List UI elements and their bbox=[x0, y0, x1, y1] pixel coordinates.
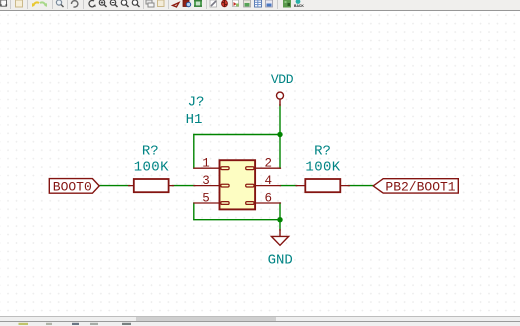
wire R1 to pin3 bbox=[172, 185, 195, 187]
icon: netlist bbox=[233, 0, 240, 7]
svg-text:PB2/BOOT1: PB2/BOOT1 bbox=[385, 180, 455, 195]
icon: run pcbnew bbox=[283, 0, 291, 8]
wire left vertical pin5 down bbox=[193, 203, 195, 220]
toolbar separators bbox=[11, 0, 278, 9]
svg-text:VDD: VDD bbox=[271, 72, 294, 87]
svg-text:R?: R? bbox=[314, 143, 331, 159]
wire bottom horizontal GND bus bbox=[194, 219, 280, 221]
resistor R2 body bbox=[305, 179, 340, 192]
wire BOOT0 to R1 bbox=[99, 185, 130, 187]
bottom status strip (cropped) bbox=[0, 321, 520, 326]
connector H1 pin notches bbox=[221, 167, 254, 205]
icon: backannotate BACK bbox=[294, 0, 304, 8]
svg-text:BOOT0: BOOT0 bbox=[53, 180, 92, 195]
power symbol GND bbox=[271, 230, 288, 246]
icon: assign footprints bbox=[244, 0, 251, 7]
icon: redo bbox=[40, 2, 47, 7]
wire VDD vertical bbox=[279, 105, 281, 169]
power symbol VDD bbox=[277, 92, 284, 105]
icon: annotate bbox=[210, 0, 217, 7]
wire R2 to PB2/BOOT1 bbox=[348, 185, 374, 187]
icon: paste bbox=[16, 0, 23, 7]
icon: library browser bbox=[194, 0, 202, 7]
svg-text:100K: 100K bbox=[305, 160, 340, 176]
icon: zoom in bbox=[99, 0, 106, 7]
resistor R1 pins bbox=[129, 185, 174, 187]
connector H1 pin stubs bbox=[194, 168, 281, 203]
svg-text:4: 4 bbox=[265, 174, 273, 188]
icon: zoom selection bbox=[132, 0, 139, 7]
svg-text:5: 5 bbox=[202, 191, 210, 205]
global label PB2/BOOT1 bbox=[373, 179, 458, 195]
resistor R1 body bbox=[134, 179, 169, 192]
top toolbar (cropped) bbox=[0, 0, 520, 11]
svg-text:3: 3 bbox=[202, 174, 210, 188]
svg-text:2: 2 bbox=[265, 157, 273, 171]
icon: library editor bbox=[183, 0, 191, 7]
icon: leave sheet bbox=[158, 0, 165, 7]
wire pin6 down to GND bbox=[279, 203, 281, 231]
global label BOOT0 bbox=[49, 179, 99, 195]
icon: find bbox=[56, 0, 63, 7]
resistor R2 pins bbox=[296, 185, 350, 187]
svg-text:1: 1 bbox=[202, 157, 210, 171]
horizontal scrollbar bbox=[0, 316, 520, 322]
icon: BOM table bbox=[255, 0, 262, 7]
svg-text:J?: J? bbox=[188, 94, 205, 110]
wire pin4 to R2 bbox=[280, 185, 297, 187]
icon: ERC ladybug bbox=[222, 0, 228, 7]
icon: zoom fit bbox=[121, 0, 128, 7]
icon: hierarchy navigator bbox=[146, 0, 154, 7]
icon: zoom auto bbox=[89, 0, 96, 6]
svg-text:R?: R? bbox=[142, 143, 159, 159]
svg-text:100K: 100K bbox=[134, 160, 169, 176]
wire left vertical to pin1 bbox=[193, 135, 195, 169]
wire top horizontal VDD bus bbox=[194, 134, 280, 136]
icon: undo bbox=[32, 2, 39, 7]
icon: footprint editor red bbox=[173, 3, 180, 8]
svg-text:H1: H1 bbox=[186, 112, 203, 128]
icon: zoom out bbox=[110, 0, 117, 7]
junction at VDD bus bbox=[277, 132, 282, 137]
icon: symbol fields table bbox=[266, 0, 273, 7]
svg-text:GND: GND bbox=[268, 253, 293, 269]
svg-text:6: 6 bbox=[265, 191, 273, 205]
junction at GND bus bbox=[277, 217, 282, 222]
connector H1 body bbox=[220, 160, 256, 209]
icon: page settings bbox=[0, 0, 7, 6]
icon: refresh bbox=[71, 1, 77, 7]
